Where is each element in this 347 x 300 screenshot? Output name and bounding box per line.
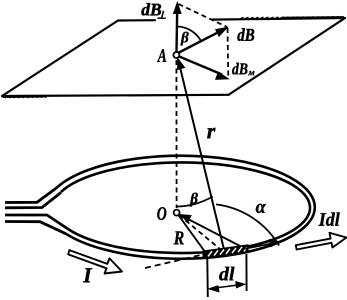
radius R line (O to element left end) bbox=[178, 215, 206, 253]
svg-text:A: A bbox=[157, 46, 167, 67]
svg-text:I: I bbox=[82, 263, 92, 287]
dashed tangent line (left of element) bbox=[145, 255, 203, 269]
svg-text:dB: dB bbox=[237, 25, 255, 45]
node O bbox=[174, 210, 180, 216]
node A bbox=[173, 52, 179, 58]
vector dB-parallel bbox=[178, 56, 228, 79]
loop outer ellipse bbox=[57, 156, 315, 259]
dl dimension right tick bbox=[245, 254, 247, 291]
dashed line O to element center bbox=[179, 215, 220, 249]
Idl hollow arrow bbox=[296, 233, 347, 250]
svg-text:⊥: ⊥ bbox=[157, 11, 166, 22]
plane edge hatching (bottom-left) bbox=[3, 96, 47, 98]
svg-text:dl: dl bbox=[219, 264, 235, 285]
angle alpha arc bbox=[216, 204, 279, 245]
arrow from element to O bbox=[180, 215, 243, 248]
svg-text:м: м bbox=[247, 68, 255, 78]
plane (parallelogram) bbox=[2, 18, 345, 96]
current element dl (hatched band) bbox=[203, 245, 248, 257]
lead wires bbox=[5, 188, 68, 234]
vector dB-perp (vertical) bbox=[174, 3, 182, 53]
svg-text:R: R bbox=[173, 228, 184, 249]
current I hollow arrow bbox=[68, 250, 122, 273]
dl direction small arrow (after element) bbox=[241, 240, 280, 250]
svg-text:β: β bbox=[189, 191, 198, 207]
plane edge hatching (top-right) bbox=[240, 16, 339, 18]
angle beta arc (top) bbox=[177, 27, 201, 42]
svg-text:dB: dB bbox=[232, 59, 248, 78]
svg-text:β: β bbox=[180, 30, 189, 46]
plane edge thickening top-right bbox=[282, 16, 344, 19]
parallelogram dashed construction lines bbox=[179, 4, 229, 78]
loop inner ellipse bbox=[61, 162, 310, 253]
svg-text:r: r bbox=[207, 118, 216, 143]
plane edge thickening bottom-left bbox=[3, 96, 47, 98]
dashed axis A to O bbox=[175, 60, 177, 208]
angle beta arc (bottom) bbox=[177, 197, 213, 207]
vector dB (diagonal) bbox=[178, 27, 227, 53]
svg-text:α: α bbox=[256, 197, 266, 218]
dl dimension arrows bbox=[209, 282, 245, 292]
svg-text:Idl: Idl bbox=[318, 210, 341, 231]
svg-text:O: O bbox=[157, 204, 167, 225]
dl dimension left tick bbox=[206, 259, 209, 297]
line r (element to A, arrow at A) bbox=[178, 58, 224, 250]
